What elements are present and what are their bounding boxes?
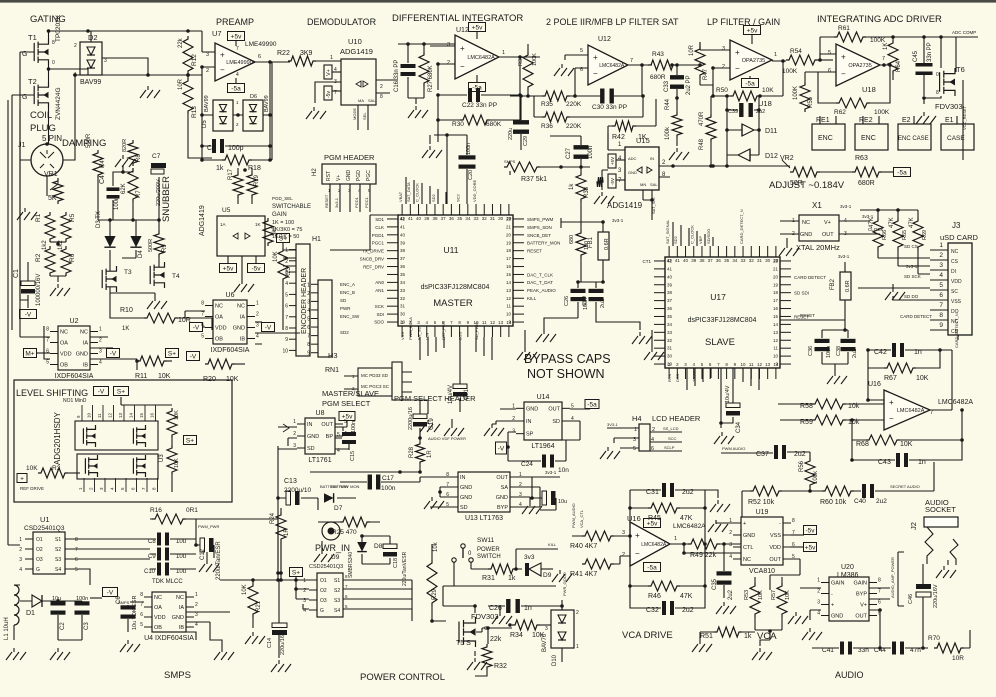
svg-text:GND: GND	[76, 352, 88, 358]
svg-text:GND: GND	[172, 615, 184, 621]
svg-text:42: 42	[667, 258, 673, 263]
svg-text:R34: R34	[518, 56, 524, 66]
capacitor C14 220u/16V	[267, 580, 287, 658]
svg-text:GND: GND	[526, 406, 538, 412]
resistor R27 680K	[419, 52, 434, 92]
svg-text:SS_LCD: SS_LCD	[663, 426, 679, 431]
svg-text:7: 7	[307, 334, 310, 340]
svg-text:PEAK_AUDIO: PEAK_AUDIO	[527, 288, 556, 293]
svg-text:U16: U16	[627, 514, 641, 523]
ground C31	[705, 490, 730, 512]
capacitor C7 snubber	[151, 153, 166, 206]
op-amp U7	[206, 29, 277, 81]
svg-text:5: 5	[828, 50, 831, 56]
svg-text:R56: R56	[799, 460, 805, 472]
capacitor C33	[664, 75, 692, 95]
svg-text:RE2: RE2	[859, 117, 873, 124]
svg-text:2 POLE IIR/MFB LP FILTER SA: 2 POLE IIR/MFB LP FILTER SAT	[546, 17, 679, 27]
svg-text:5: 5	[285, 292, 288, 298]
svg-text:SNCB_DET: SNCB_DET	[527, 233, 551, 238]
svg-text:10K: 10K	[762, 87, 774, 94]
svg-text:CARD_DETECT_N: CARD_DETECT_N	[954, 313, 959, 348]
svg-text:2: 2	[206, 68, 209, 74]
svg-text:LEVEL SHIFTING: LEVEL SHIFTING	[16, 388, 88, 398]
svg-text:100K: 100K	[532, 53, 538, 66]
wire U13 right	[518, 470, 560, 507]
resistor R17	[228, 168, 243, 198]
svg-text:10u: 10u	[176, 569, 186, 575]
label audio amp power	[890, 552, 904, 606]
svg-text:12: 12	[108, 412, 113, 418]
svg-text:SECRET AUDIO: SECRET AUDIO	[890, 484, 920, 489]
svg-text:11: 11	[97, 413, 102, 418]
svg-text:9: 9	[939, 322, 943, 329]
op-amp U1b audio	[868, 381, 973, 430]
svg-text:7: 7	[140, 602, 143, 608]
svg-text:6: 6	[46, 349, 49, 355]
regulator U14	[512, 394, 574, 450]
wire U10 right	[376, 80, 398, 93]
svg-text:−: −	[635, 549, 640, 558]
resistor R51 1k	[700, 627, 755, 640]
svg-text:R44: R44	[665, 98, 671, 110]
svg-text:R11: R11	[135, 373, 147, 380]
svg-text:C46: C46	[908, 594, 914, 604]
svg-text:CSD25401Q3: CSD25401Q3	[24, 525, 65, 532]
svg-text:T5 S: T5 S	[456, 640, 471, 647]
svg-text:LMC6482A: LMC6482A	[938, 399, 973, 406]
svg-text:SLAVE: SLAVE	[705, 337, 735, 348]
svg-text:R62: R62	[834, 109, 846, 116]
svg-text:C19: C19	[428, 418, 435, 430]
svg-text:31: 31	[757, 258, 763, 263]
svg-text:4: 4	[236, 72, 239, 78]
svg-text:U12: U12	[456, 27, 469, 34]
svg-text:GND: GND	[460, 485, 472, 491]
svg-text:CS: CS	[951, 259, 959, 265]
svg-text:R47: R47	[703, 68, 709, 80]
wire R1R5 join	[50, 242, 66, 282]
svg-text:1k: 1k	[744, 633, 752, 640]
svg-text:10K: 10K	[26, 465, 38, 472]
svg-text:MASTER/SLAVE: MASTER/SLAVE	[322, 389, 379, 398]
svg-text:R27 680K: R27 680K	[428, 65, 434, 92]
diode pair D10 BAV70	[542, 572, 579, 666]
svg-text:7: 7	[882, 56, 885, 62]
top border bar	[0, 0, 996, 3]
svg-text:+5v: +5v	[747, 28, 758, 35]
svg-text:C4: C4	[99, 175, 106, 184]
wire U14	[496, 400, 599, 462]
svg-text:47K: 47K	[889, 217, 895, 228]
ground C26	[488, 606, 512, 624]
net S+ U9	[290, 568, 310, 610]
op-amp U18b	[828, 44, 885, 94]
svg-text:VCA DRIVE: VCA DRIVE	[622, 630, 673, 641]
wire U1 out	[73, 539, 150, 585]
svg-text:SMPS: SMPS	[164, 670, 191, 681]
svg-text:C9: C9	[148, 554, 156, 560]
svg-text:3: 3	[729, 542, 732, 548]
capacitor C26 1n	[488, 599, 562, 613]
svg-text:10K: 10K	[758, 590, 764, 600]
svg-text:ADG1419: ADG1419	[199, 205, 206, 236]
svg-text:POWER: POWER	[477, 547, 500, 553]
svg-text:O2: O2	[320, 588, 327, 594]
PGM header H2	[312, 153, 376, 212]
svg-text:0R1: 0R1	[186, 507, 198, 514]
svg-text:5: 5	[571, 403, 574, 409]
svg-text:ENC_B: ENC_B	[340, 290, 355, 295]
op-amp U18a	[722, 40, 777, 108]
svg-text:10: 10	[506, 312, 512, 317]
svg-text:3K9: 3K9	[300, 50, 313, 57]
svg-text:680R: 680R	[650, 74, 666, 81]
svg-text:BAV70: BAV70	[542, 633, 548, 652]
svg-text:36: 36	[716, 258, 722, 263]
svg-text:PGD_SEL: PGD_SEL	[272, 196, 293, 201]
svg-text:3: 3	[293, 443, 296, 449]
svg-text:10k: 10k	[433, 541, 439, 552]
svg-text:C12: C12	[200, 548, 206, 560]
capacitor C43 1n	[850, 438, 964, 467]
svg-text:2: 2	[99, 338, 102, 344]
resistor R60 10k	[808, 486, 861, 506]
svg-text:3: 3	[104, 58, 107, 64]
svg-text:7: 7	[878, 589, 881, 595]
wire H1	[283, 250, 296, 266]
svg-text:PGM HEADER: PGM HEADER	[324, 153, 375, 162]
resistor R68 10K	[850, 408, 964, 448]
svg-text:1: 1	[307, 282, 310, 288]
wire left rail	[8, 100, 20, 545]
svg-text:10K: 10K	[785, 590, 791, 600]
svg-text:R1: R1	[35, 213, 42, 222]
svg-text:C29: C29	[582, 296, 588, 306]
svg-text:1: 1	[256, 301, 259, 307]
svg-text:2: 2	[939, 252, 943, 259]
svg-text:PWM_BCKA: PWM_BCKA	[408, 317, 413, 340]
svg-text:3v3-1: 3v3-1	[612, 218, 624, 223]
title VCA DRIVE	[622, 630, 673, 641]
analog switch U5	[199, 205, 265, 256]
svg-text:C6: C6	[116, 596, 122, 604]
capacitor C20 100n	[459, 135, 476, 204]
resistor R30 680K	[436, 93, 522, 128]
svg-text:OPA2735: OPA2735	[848, 63, 871, 69]
wire U17 bottom	[687, 368, 759, 390]
svg-text:NOT SHOWN: NOT SHOWN	[527, 367, 605, 381]
svg-text:D10: D10	[552, 654, 558, 666]
ground C26b	[536, 318, 640, 342]
svg-text:2: 2	[285, 259, 288, 265]
svg-text:17: 17	[773, 298, 779, 303]
wire audio out	[905, 646, 925, 650]
resistor R36 220K	[534, 94, 645, 130]
svg-text:10: 10	[87, 412, 92, 418]
resistor R50 10K	[711, 61, 783, 101]
svg-text:30: 30	[765, 258, 771, 263]
svg-text:ENC CASE: ENC CASE	[898, 136, 929, 142]
svg-text:47K: 47K	[680, 593, 693, 600]
U11 top net labels	[398, 179, 477, 202]
svg-text:33: 33	[667, 330, 673, 335]
svg-text:6: 6	[140, 612, 143, 618]
ferrite FB2	[830, 254, 851, 318]
capacitor C8 10u	[148, 533, 196, 546]
svg-text:S3: S3	[55, 557, 61, 563]
svg-text:RTS: RTS	[667, 374, 672, 382]
svg-text:3: 3	[545, 626, 548, 632]
svg-text:GAIN: GAIN	[272, 212, 287, 218]
svg-text:−: −	[889, 414, 894, 423]
svg-text:NC: NC	[60, 330, 68, 336]
ground U13 right	[522, 497, 542, 514]
gate driver U6	[201, 292, 259, 354]
svg-text:R22: R22	[277, 50, 290, 57]
net -5a vr2	[894, 168, 911, 177]
svg-text:R67: R67	[884, 375, 897, 382]
svg-text:LCD HEADER: LCD HEADER	[652, 414, 701, 423]
svg-text:100000/16V: 100000/16V	[36, 274, 42, 306]
svg-text:+: +	[743, 521, 746, 527]
svg-text:50R: 50R	[790, 180, 803, 187]
svg-text:10u TDK ESR: 10u TDK ESR	[132, 596, 138, 630]
svg-text:D1: D1	[26, 610, 35, 617]
svg-text:R64: R64	[896, 60, 902, 72]
title LP FILTER / GAIN	[707, 17, 780, 27]
svg-text:H3: H3	[328, 351, 338, 360]
svg-text:RESET: RESET	[800, 313, 815, 318]
svg-text:-5a: -5a	[647, 565, 657, 572]
resistor R69 47K	[909, 210, 928, 274]
inductor L1	[4, 585, 20, 640]
svg-text:3v3-1: 3v3-1	[334, 197, 339, 208]
svg-text:8: 8	[75, 537, 78, 543]
op-amp U16	[622, 514, 706, 566]
capacitor C46 audio	[908, 564, 939, 648]
resistor R24 1R	[270, 508, 290, 575]
ground U10	[306, 107, 326, 119]
svg-text:30: 30	[498, 216, 504, 221]
svg-text:U8: U8	[316, 410, 325, 417]
svg-text:OA: OA	[154, 605, 162, 611]
svg-text:AUDIO: AUDIO	[835, 670, 864, 680]
svg-text:1k: 1k	[508, 575, 516, 582]
U17 top net labels	[665, 209, 744, 244]
svg-text:PWM AUDIO: PWM AUDIO	[722, 446, 745, 451]
op-amp U12b	[580, 36, 633, 85]
svg-text:1: 1	[674, 536, 677, 542]
svg-text:ADC: ADC	[628, 156, 637, 161]
svg-text:U14: U14	[537, 394, 550, 401]
svg-text:41: 41	[667, 266, 673, 271]
svg-text:D7: D7	[334, 505, 343, 512]
wire u16 out	[703, 508, 707, 586]
svg-text:V+: V+	[824, 220, 831, 226]
resistor R44 100K	[665, 63, 682, 146]
ground C4	[113, 155, 135, 186]
resistor R65 47K	[889, 210, 908, 266]
svg-text:11: 11	[506, 304, 511, 309]
microcontroller U17 SLAVE	[654, 246, 791, 379]
transistor T2	[22, 77, 62, 120]
net -5a U7	[228, 78, 245, 93]
svg-text:R60 10k: R60 10k	[820, 499, 847, 506]
svg-text:47K: 47K	[909, 217, 915, 228]
svg-text:U13 LT1763: U13 LT1763	[465, 515, 503, 522]
svg-text:15: 15	[139, 412, 144, 418]
svg-text:VDD: VDD	[60, 352, 72, 358]
svg-text:32: 32	[400, 296, 406, 301]
svg-text:10K: 10K	[273, 251, 279, 262]
resistor R54 100K	[782, 48, 833, 75]
svg-text:D6: D6	[250, 94, 257, 100]
svg-text:2u2: 2u2	[876, 498, 887, 505]
svg-text:VDD: VDD	[215, 326, 227, 332]
svg-text:10K: 10K	[900, 441, 913, 448]
svg-text:C30 33n PP: C30 33n PP	[592, 104, 627, 111]
svg-text:8: 8	[936, 90, 939, 96]
svg-text:U18: U18	[862, 85, 876, 94]
svg-text:220u/16V: 220u/16V	[280, 631, 286, 655]
title INTEGRATING ADC DRIVER	[817, 14, 942, 25]
net -5V U15	[608, 174, 625, 188]
svg-text:47K: 47K	[680, 515, 693, 522]
capacitor C15 100n	[335, 421, 357, 461]
svg-text:3: 3	[722, 46, 725, 52]
svg-text:VR1: VR1	[44, 171, 58, 178]
wire U15 right	[659, 166, 680, 177]
svg-text:TP0202K: TP0202K	[55, 14, 62, 42]
svg-text:37: 37	[708, 258, 714, 263]
svg-text:R31: R31	[482, 575, 495, 582]
svg-text:RST: RST	[326, 171, 332, 181]
capacitor C44 47n	[874, 642, 928, 655]
wire R10	[110, 293, 212, 330]
svg-text:R38: R38	[584, 186, 590, 198]
svg-text:U10: U10	[348, 37, 362, 46]
svg-text:NO1 MinD: NO1 MinD	[63, 398, 87, 404]
svg-text:7: 7	[46, 338, 49, 344]
svg-text:S4: S4	[55, 567, 61, 573]
svg-text:3v3-1: 3v3-1	[840, 204, 852, 209]
svg-text:GND: GND	[307, 434, 319, 440]
svg-text:D8: D8	[374, 543, 383, 550]
capacitor C22	[436, 55, 522, 109]
ground U5	[234, 256, 254, 292]
svg-text:40: 40	[416, 216, 422, 221]
svg-text:1k2: 1k2	[42, 240, 48, 250]
svg-text:38: 38	[667, 290, 673, 295]
net -V U14	[496, 442, 507, 454]
svg-text:U7: U7	[212, 29, 222, 38]
svg-text:MN: MN	[640, 182, 646, 187]
svg-text:SAT_SIG: SAT_SIG	[651, 197, 656, 214]
resistor R22 3K9	[277, 50, 341, 66]
svg-text:IN: IN	[307, 422, 313, 428]
capacitor C17 100n	[331, 475, 450, 493]
svg-text:6: 6	[939, 292, 943, 299]
svg-text:D5: D5	[202, 120, 208, 128]
ground U15 right	[0, 0, 1, 1]
capacitor C35 2u2	[712, 542, 734, 600]
svg-text:R12: R12	[191, 54, 198, 66]
svg-text:+: +	[889, 398, 894, 407]
capacitor C26b	[564, 258, 605, 318]
svg-text:R34: R34	[510, 632, 523, 639]
svg-text:BATTERY_MON: BATTERY_MON	[527, 241, 560, 246]
svg-text:PLUG: PLUG	[30, 123, 56, 134]
svg-text:2: 2	[817, 589, 820, 595]
svg-text:U12: U12	[598, 36, 611, 43]
svg-text:POWER CONTROL: POWER CONTROL	[360, 672, 445, 683]
diode D11	[725, 124, 777, 136]
net -V smps	[90, 588, 130, 606]
wire int out	[437, 95, 439, 142]
svg-text:34: 34	[667, 322, 673, 327]
svg-text:SMPS_PWM: SMPS_PWM	[527, 217, 554, 222]
ground R2R6	[50, 284, 70, 296]
net +5v U19	[791, 543, 817, 552]
wire bottom bus	[0, 0, 1, 1]
svg-text:NC: NC	[154, 595, 162, 601]
svg-text:3: 3	[939, 262, 943, 269]
title GATING	[30, 14, 66, 25]
resistor R59 10k	[780, 415, 884, 426]
svg-text:R10: R10	[120, 307, 133, 314]
svg-text:SD2: SD2	[340, 330, 349, 335]
svg-text:S1: S1	[334, 578, 340, 584]
svg-text:20: 20	[773, 274, 779, 279]
svg-text:8: 8	[46, 327, 49, 333]
svg-text:680K: 680K	[486, 121, 502, 128]
svg-text:14: 14	[773, 322, 779, 327]
svg-text:U18: U18	[758, 99, 772, 108]
resistor R28 1R	[310, 428, 466, 474]
svg-text:1: 1	[774, 52, 777, 58]
svg-text:OB: OB	[60, 363, 68, 369]
switch SW11	[443, 537, 556, 586]
svg-text:CLK: CLK	[375, 225, 384, 230]
svg-text:CSD25401Q3: CSD25401Q3	[309, 564, 343, 570]
svg-text:1A: 1A	[220, 222, 226, 227]
ferrite FB1b	[561, 218, 624, 282]
net -5a U16	[644, 563, 661, 572]
svg-text:1: 1	[939, 242, 943, 249]
svg-text:GND: GND	[346, 170, 352, 182]
svg-text:0.6R: 0.6R	[845, 280, 851, 292]
svg-text:BAV99: BAV99	[204, 95, 210, 112]
svg-text:U16: U16	[868, 381, 881, 388]
svg-text:BYP: BYP	[497, 505, 508, 511]
ground coil	[17, 208, 37, 220]
svg-text:+5v: +5v	[223, 266, 234, 273]
svg-text:EN_SD: EN_SD	[416, 327, 421, 340]
svg-text:220K: 220K	[566, 123, 582, 130]
svg-text:E2: E2	[902, 117, 911, 124]
ground H4	[600, 447, 620, 459]
svg-text:uSD CARD: uSD CARD	[940, 233, 979, 242]
wire xtal out	[858, 214, 884, 234]
capacitor C27	[550, 136, 594, 167]
gate driver U2	[46, 318, 102, 380]
svg-text:R35: R35	[541, 101, 553, 108]
wire U20	[800, 588, 890, 620]
svg-text:VCA_CTL: VCA_CTL	[579, 509, 584, 528]
svg-text:+: +	[735, 48, 740, 57]
encoder RE2	[855, 116, 888, 150]
